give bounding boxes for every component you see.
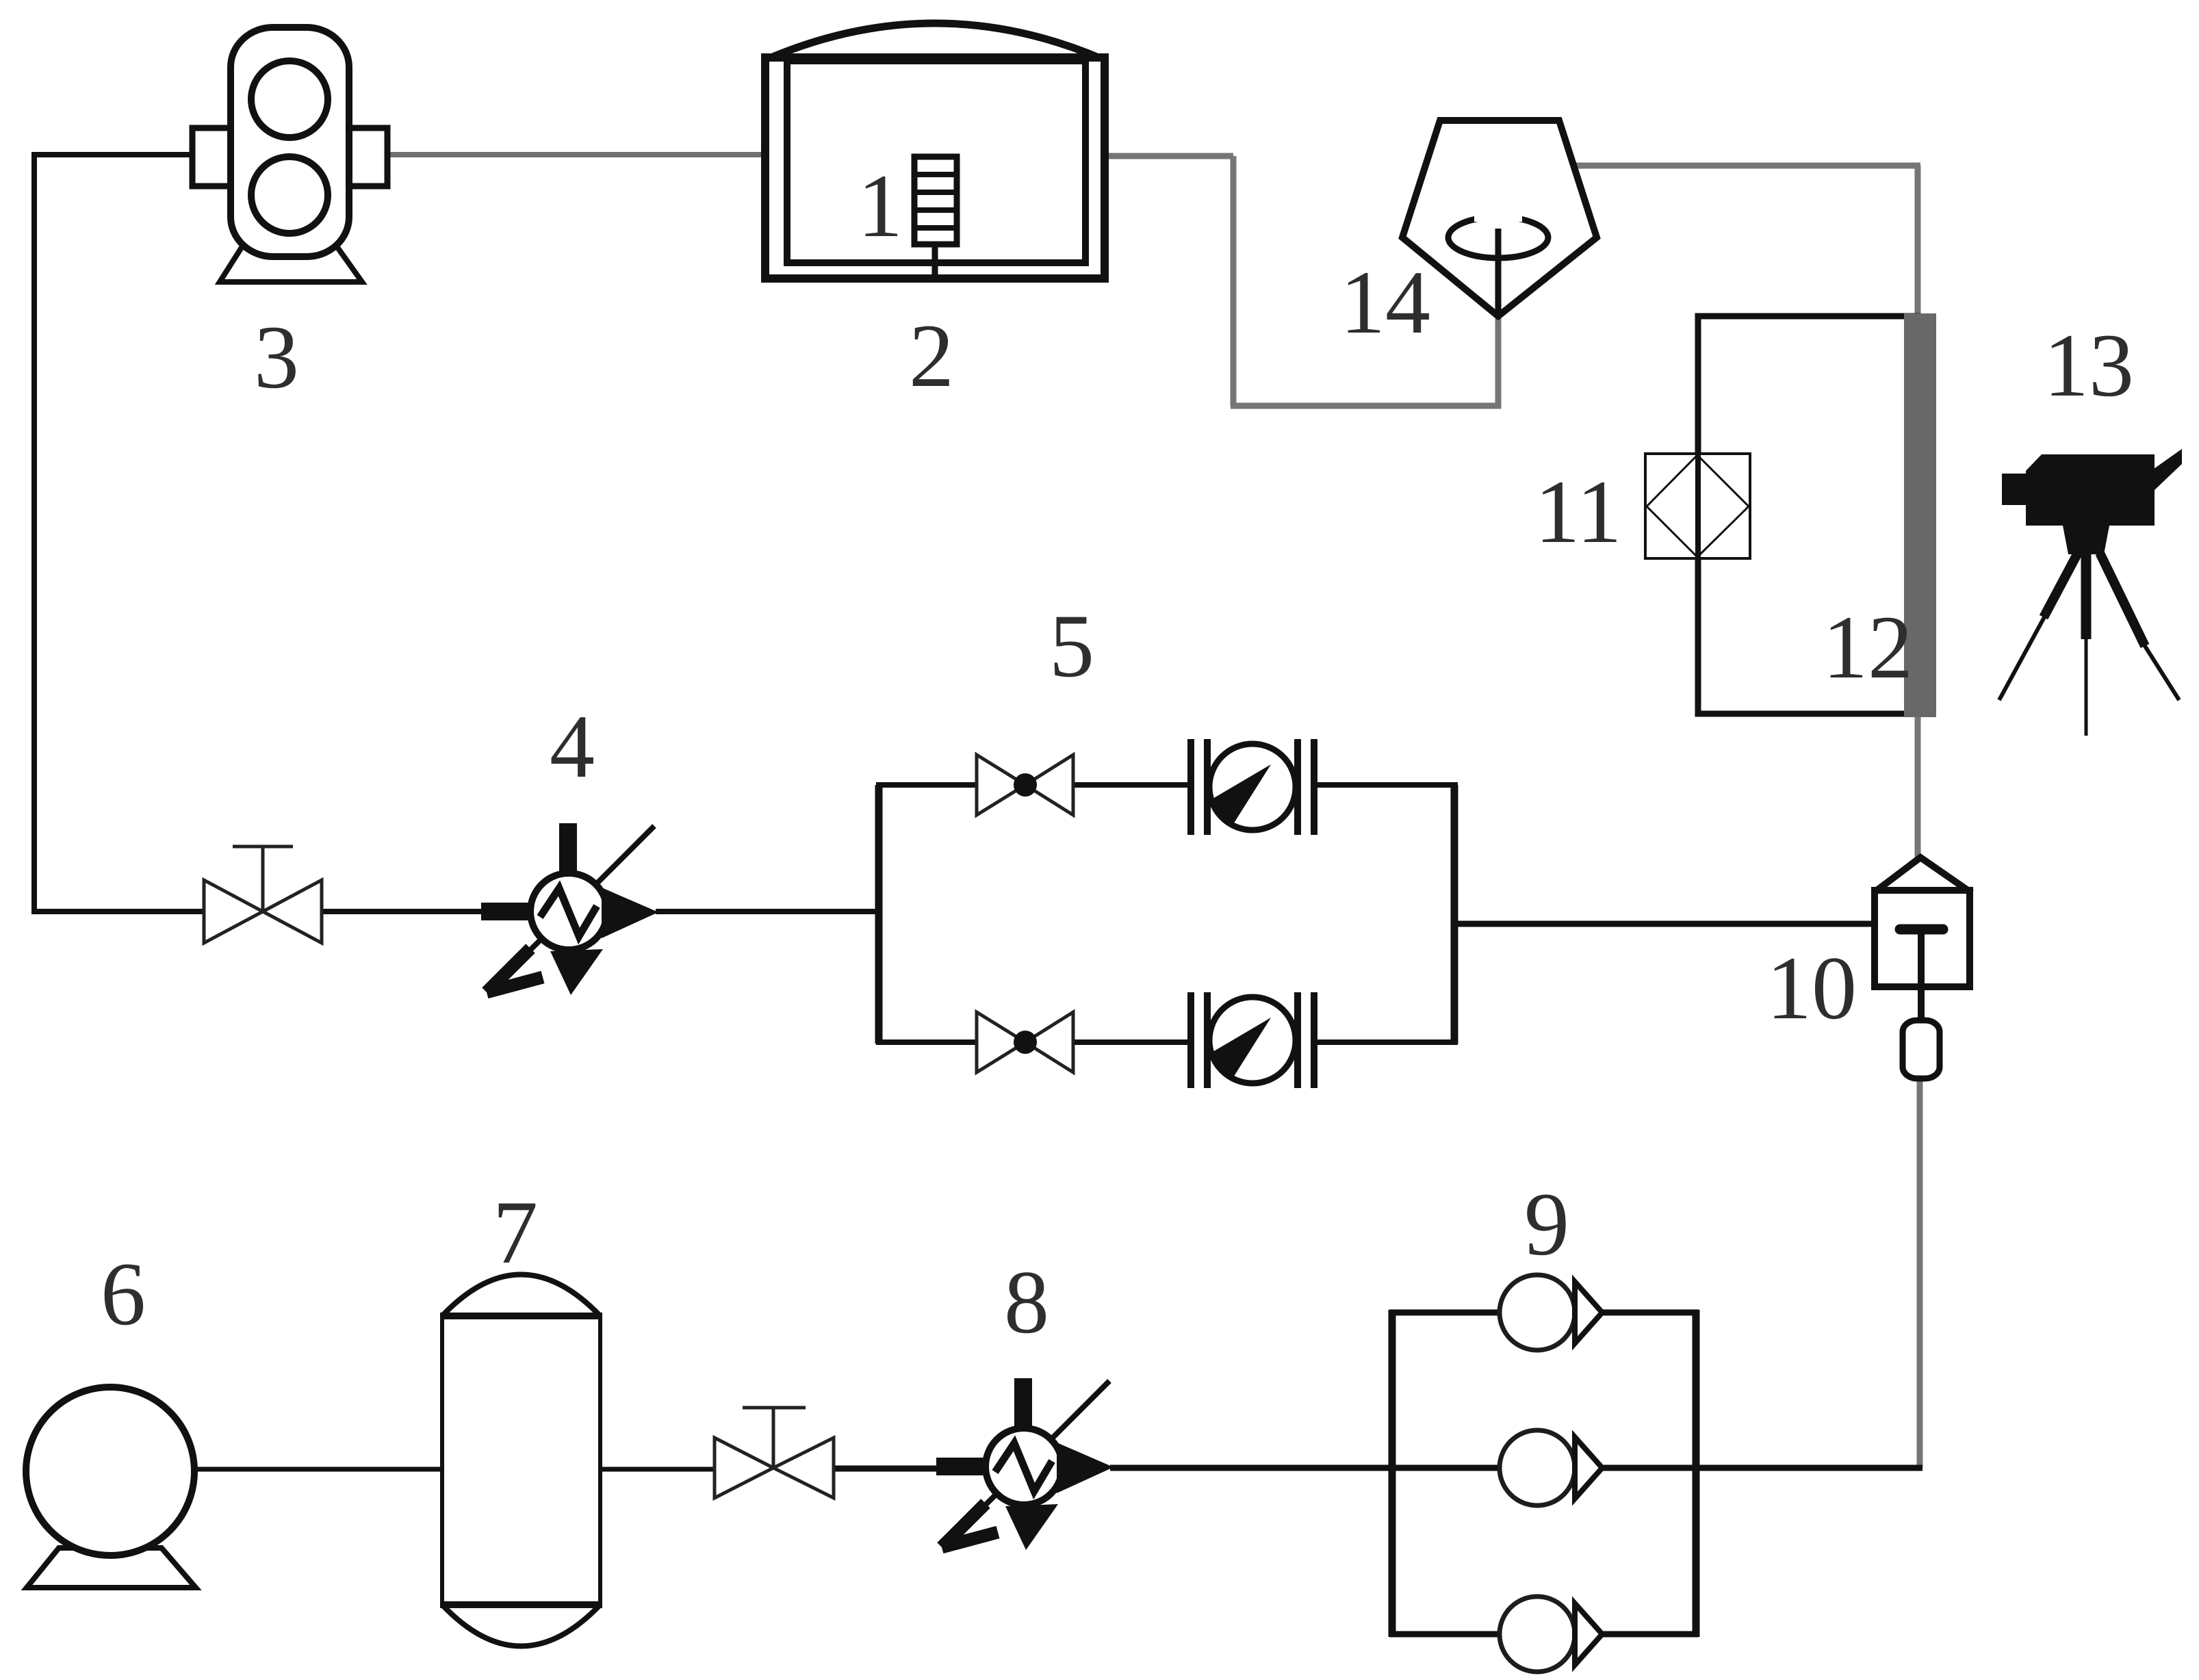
pump 6 base xyxy=(27,1548,196,1588)
compressor 3 body xyxy=(231,27,349,257)
svg-text:14: 14 xyxy=(1340,252,1430,352)
compressor 3 right port xyxy=(349,128,387,186)
compressor 3 upper rotor xyxy=(251,61,328,138)
compressor 3 left port xyxy=(192,128,231,186)
svg-text:6: 6 xyxy=(101,1243,146,1344)
wire bottom valve to heater 8 xyxy=(831,1466,940,1472)
pumps 9 middle branch xyxy=(1389,1465,1699,1471)
camera 13 tripod center leg xyxy=(2081,553,2092,639)
pumps 9 right bus xyxy=(1693,1310,1700,1637)
loop 5 left bus xyxy=(875,785,883,1044)
cyclone 14 body xyxy=(1402,120,1597,316)
float valve 10 roof xyxy=(1873,857,1972,893)
wire compressor 3 to tank 2 xyxy=(386,152,768,157)
flow meter top branch xyxy=(1191,739,1314,835)
svg-text:2: 2 xyxy=(909,305,954,406)
compressor 3 lower rotor xyxy=(251,157,328,233)
pump 9 bottom xyxy=(1500,1597,1602,1672)
fan 11 frame xyxy=(1645,454,1750,558)
fan 11 blade diamond xyxy=(1647,455,1749,557)
pumps 9 left bus xyxy=(1389,1310,1396,1637)
valve main (left) handle xyxy=(233,847,293,912)
loop 5 right bus xyxy=(1451,785,1458,1044)
flow meter bottom branch xyxy=(1191,992,1314,1088)
condenser 12 box xyxy=(1698,316,1920,714)
camera 13 lens xyxy=(2002,474,2029,505)
wire cyclone stem down xyxy=(1495,313,1502,409)
svg-text:3: 3 xyxy=(254,307,299,407)
svg-text:10: 10 xyxy=(1766,938,1857,1038)
svg-text:4: 4 xyxy=(550,696,595,797)
camera 13 tripod left leg xyxy=(2044,553,2078,617)
wire bottom right horizontal to pumps 9 xyxy=(1693,1465,1922,1471)
regulating heater 8 xyxy=(936,1378,1114,1550)
wire cyclone 14 to right xyxy=(1573,163,1920,169)
loop 5 bottom branch wire xyxy=(876,1039,1458,1045)
float valve 10 body xyxy=(1875,890,1970,987)
tank 2 inner shell xyxy=(787,61,1085,263)
wire tank 7 to bottom valve xyxy=(600,1467,717,1472)
camera 13 viewfinder xyxy=(2149,449,2182,491)
bottom valve body xyxy=(715,1438,834,1498)
wire heater 8 to pumps 9 xyxy=(1110,1465,1395,1471)
ball valve top branch xyxy=(977,755,1073,815)
wire loop 5 exit to float valve 10 xyxy=(1452,921,1877,927)
wire middle horizontal left (corner to valve) xyxy=(31,909,205,914)
cyclone 14 stem xyxy=(1495,229,1502,316)
svg-text:8: 8 xyxy=(1004,1252,1049,1352)
pump 9 top xyxy=(1500,1275,1602,1350)
cyclone 14 swirl xyxy=(1448,217,1548,258)
wire float valve 10 down xyxy=(1917,1076,1923,1468)
svg-text:7: 7 xyxy=(493,1182,538,1282)
bottom valve handle xyxy=(743,1408,806,1468)
wire condenser 12 to float valve 10 xyxy=(1915,714,1921,860)
condenser 12 cold plate xyxy=(1904,313,1936,717)
compressor 3 base xyxy=(220,246,362,282)
wire pump 6 to tank 7 xyxy=(193,1467,443,1472)
svg-text:1: 1 xyxy=(858,155,903,256)
heater element 1 xyxy=(914,157,957,244)
wire right vertical down to condenser 12 xyxy=(1915,166,1921,319)
tank 7 shell xyxy=(442,1316,600,1605)
loop 5 top branch wire xyxy=(876,782,1458,788)
wire valve to heater 4 xyxy=(320,909,486,914)
camera 13 body xyxy=(2026,454,2155,526)
float valve 10 plunger xyxy=(1900,925,1943,935)
wire corner down xyxy=(1231,156,1237,406)
svg-text:13: 13 xyxy=(2044,315,2134,415)
pump 9 middle xyxy=(1500,1430,1602,1505)
wire heater 4 to loop 5 xyxy=(656,909,882,914)
valve main (left) body xyxy=(204,880,322,943)
pumps 9 top branch xyxy=(1389,1310,1699,1316)
wire top-left horizontal (corner to compressor 3) xyxy=(34,152,194,157)
pumps 9 bottom branch xyxy=(1389,1631,1699,1638)
tank 7 top cap xyxy=(442,1275,600,1317)
heater element 1 stem xyxy=(932,240,938,279)
tank 2 dome xyxy=(768,23,1102,59)
camera 13 mount xyxy=(2063,526,2109,554)
fan 11 axis xyxy=(1695,454,1701,558)
svg-text:5: 5 xyxy=(1049,595,1094,696)
wire left vertical xyxy=(31,152,37,912)
float valve 10 float xyxy=(1903,1020,1940,1078)
pump 6 body xyxy=(26,1387,194,1555)
tank 7 bottom cap xyxy=(442,1605,600,1646)
tank 2 outer shell xyxy=(765,57,1105,279)
svg-text:11: 11 xyxy=(1534,461,1621,562)
svg-text:9: 9 xyxy=(1524,1174,1569,1274)
wire bottom run to under cyclone 14 xyxy=(1231,403,1501,409)
wire tank 2 to corner right xyxy=(1102,153,1233,159)
ball valve bottom branch xyxy=(977,1012,1073,1072)
svg-text:12: 12 xyxy=(1823,597,1913,697)
camera 13 tripod right leg xyxy=(2100,553,2145,646)
regulating heater 4 xyxy=(481,823,658,995)
